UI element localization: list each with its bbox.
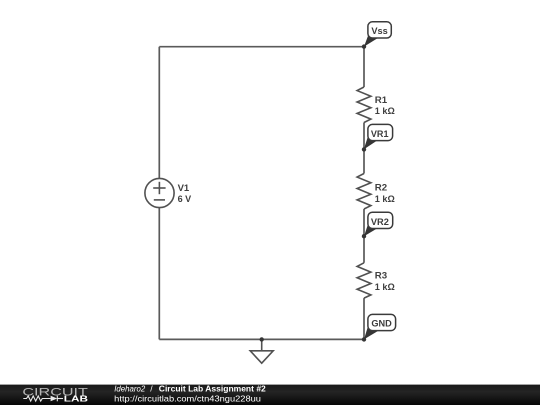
node VR2 flag xyxy=(364,212,393,236)
svg-text:Circuit Lab Assignment #2: Circuit Lab Assignment #2 xyxy=(159,384,266,394)
svg-text:GND: GND xyxy=(371,318,392,328)
svg-text:LAB: LAB xyxy=(64,395,88,404)
svg-text:1 kΩ: 1 kΩ xyxy=(375,106,395,116)
svg-text:Vss: Vss xyxy=(371,26,387,36)
wire bottom xyxy=(159,338,364,340)
junction dot VR2 xyxy=(362,234,366,238)
voltage source V1 xyxy=(145,178,174,207)
svg-text:http://circuitlab.com/ctn43ngu: http://circuitlab.com/ctn43ngu228uu xyxy=(114,394,261,404)
svg-text:1 kΩ: 1 kΩ xyxy=(375,282,395,292)
wire right seg4 xyxy=(363,298,365,339)
resistor R2 xyxy=(357,174,371,210)
ground xyxy=(250,339,273,363)
svg-text:V1: V1 xyxy=(178,183,190,193)
svg-text:1 kΩ: 1 kΩ xyxy=(375,194,395,204)
svg-text:R1: R1 xyxy=(375,95,387,105)
node VR1 flag xyxy=(364,124,393,149)
svg-text:R2: R2 xyxy=(375,183,387,193)
svg-text:Ideharo2: Ideharo2 xyxy=(114,384,145,394)
svg-text:R3: R3 xyxy=(375,270,387,280)
svg-text:6 V: 6 V xyxy=(178,194,192,204)
junction dot GND xyxy=(362,337,366,341)
wire left upper xyxy=(158,47,160,179)
svg-text:VR1: VR1 xyxy=(371,129,389,139)
resistor R3 xyxy=(357,263,371,298)
junction dot ground tap xyxy=(260,337,264,341)
wire left lower xyxy=(158,208,160,340)
wire top xyxy=(159,46,364,48)
resistor R1 xyxy=(357,87,371,123)
node GND flag xyxy=(364,314,396,339)
junction dot Vss xyxy=(362,44,366,48)
logo squiggle xyxy=(23,396,63,402)
wire right seg1 xyxy=(363,47,365,87)
junction dot VR1 xyxy=(362,147,366,151)
svg-text:VR2: VR2 xyxy=(371,217,389,227)
node Vss flag xyxy=(364,22,391,47)
logo diode xyxy=(51,396,58,402)
wire right seg3 xyxy=(363,209,365,263)
wire right seg2 xyxy=(363,123,365,174)
